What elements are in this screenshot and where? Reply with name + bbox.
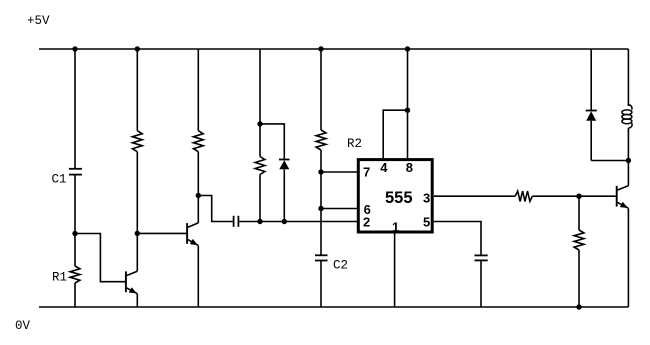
node on trigger wire at D1 (282, 219, 287, 224)
node pin4/pin8 junction (405, 108, 410, 113)
wire D2 to node F (591, 160, 628, 162)
node top rail junction at pin8 branch (405, 46, 410, 51)
svg-text:C1: C1 (52, 173, 67, 187)
wire from +5V rail down to C1 (74, 49, 76, 169)
svg-text:3: 3 (423, 190, 430, 205)
diode D1 (279, 159, 290, 161)
node B (Q1 collector) (135, 231, 140, 236)
wire +5V rail down to D2 cathode (590, 49, 592, 110)
capacitor C3 (coupling) (233, 216, 235, 227)
wire Q2 emitter to 0V (197, 246, 199, 308)
svg-text:+5V: +5V (27, 14, 50, 28)
wire 555 pin 4 reset jog (383, 110, 407, 158)
transistor Q3 (616, 186, 618, 207)
node top rail junction at R3 branch (135, 46, 140, 51)
svg-text:7: 7 (363, 164, 370, 179)
node F (flyback/coil junction) (626, 158, 631, 163)
wire C4 to 0V rail (480, 260, 482, 307)
wire from C1 down to node A (74, 175, 76, 234)
svg-text:1: 1 (392, 219, 399, 234)
svg-text:C2: C2 (333, 259, 348, 273)
wire 555 pin 8 to +5V rail (407, 49, 409, 158)
wire R6 to node E (532, 195, 579, 197)
svg-text:0V: 0V (15, 319, 31, 333)
wire Q1 collector vertical (136, 233, 138, 271)
wire C2 to 0V rail (320, 261, 322, 308)
resistor R3 (Q1 collector load) (132, 131, 142, 152)
wire node B to Q2 base (137, 232, 186, 234)
resistor R5 (259, 124, 261, 157)
node R7 at 0V rail (576, 304, 581, 309)
wire C3 to trigger node (239, 221, 357, 223)
resistor R7 (base pulldown) (578, 196, 580, 230)
svg-text:R1: R1 (52, 271, 67, 285)
resistor R2 (316, 130, 326, 150)
wire from +5V rail down to node D (259, 49, 261, 124)
resistor R4 (Q2 collector load) (193, 131, 203, 152)
svg-text:5: 5 (423, 215, 430, 230)
wire from +5V rail down to R2 (320, 49, 322, 130)
wire node C to coupling capacitor C3 (198, 196, 233, 222)
wire from +5V rail down to R4 (197, 49, 199, 131)
wire Q3 collector vertical (627, 161, 629, 186)
capacitor C4 (control) (475, 254, 488, 256)
svg-text:4: 4 (380, 160, 388, 175)
wire from +5V rail down to R3 (136, 49, 138, 131)
diode D2 (flyback) (586, 110, 597, 112)
IC U1 555 timer body (358, 160, 432, 232)
wire pin7 node down to pin6 node (320, 172, 322, 209)
wire 0V bottom rail (39, 306, 628, 308)
wire R4 to Q2 collector node (197, 152, 199, 196)
resistor R1 (74, 234, 76, 267)
wire +5V rail down to L1 (627, 49, 629, 106)
wire R3 to Q1 collector node (136, 152, 138, 234)
wire node D to D1 cathode (260, 124, 284, 159)
transistor Q1 (125, 271, 127, 292)
capacitor C2 (315, 254, 328, 256)
node top rail junction at R2 branch (318, 46, 323, 51)
node A (C1/R1 junction) (72, 231, 77, 236)
wire node E to Q3 base (579, 195, 616, 197)
wire 555 pin 5 to C4 (434, 222, 481, 256)
wire 555 pin 1 to 0V rail (394, 234, 396, 308)
wire pin6 node down to C2 (320, 209, 322, 256)
wire +5V top rail (39, 48, 628, 50)
wire pin7 node to 555 pin 7 (321, 171, 357, 173)
resistor R6 (output series) (515, 191, 532, 201)
wire D2 anode down (590, 121, 592, 161)
svg-text:8: 8 (406, 160, 413, 175)
svg-text:2: 2 (363, 215, 370, 230)
inductor L1 (relay coil) (628, 105, 632, 110)
node E (Q3 base node) (576, 194, 581, 199)
wire L1 to node F (627, 128, 629, 161)
wire node A to Q1 base (75, 234, 125, 282)
node pin6 (threshold) (318, 206, 323, 211)
wire D1 anode down to trigger wire (283, 169, 285, 221)
wire R2 to pin7 node (320, 150, 322, 172)
wire Q1 emitter to 0V (136, 294, 138, 307)
svg-text:R2: R2 (347, 137, 362, 151)
node on trigger wire at R5 (257, 219, 262, 224)
wire Q2 collector vertical (197, 196, 199, 223)
node top rail junction at C1 branch (72, 46, 77, 51)
wire pin6 node to 555 pin 6 (321, 208, 357, 210)
svg-text:555: 555 (385, 189, 413, 207)
node C (Q2 collector) (196, 193, 201, 198)
wire 555 pin 3 output (434, 195, 515, 197)
node pin7 (discharge) (318, 169, 323, 174)
capacitor C1 (69, 168, 82, 170)
node D (R5/D1 top) (257, 121, 262, 126)
transistor Q2 (186, 223, 188, 244)
wire Q3 emitter to 0V rail corner (627, 208, 629, 307)
